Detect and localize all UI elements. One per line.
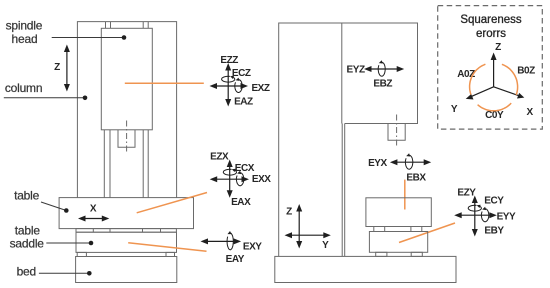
EZX vertical arrow [229,165,231,192]
EYX horizontal arrow [395,161,425,163]
spindle centerline side view [396,115,398,149]
table slide strip [76,229,176,233]
legend orange arc B0Z (between Z and X) [502,64,518,95]
table saddle [76,232,177,252]
svg-text:X: X [90,204,97,215]
svg-text:EXZ: EXZ [251,83,269,94]
EZY horizontal arrow [460,214,492,216]
svg-text:Z: Z [54,62,60,73]
guide rails left [104,130,110,198]
X axis arrow in table [84,218,105,220]
svg-text:EZY: EZY [457,187,476,198]
svg-text:EBY: EBY [484,226,504,237]
column outline [77,22,176,198]
EZZ horizontal arrow [215,85,243,87]
Z-Y coordinate cross side view [298,210,300,244]
saddle side view [369,232,427,253]
EAY rotation ellipse (about horizontal axis) [227,233,233,250]
EAZ rotation ellipse (about horizontal axis) [235,80,242,93]
svg-text:Y: Y [451,104,458,115]
Z axis arrow front view [66,50,68,87]
EYZ horizontal arrow [370,68,399,70]
side view outline: top + left edge [279,23,418,256]
svg-text:EBX: EBX [406,172,426,183]
bed [76,257,177,283]
slide block ticks [93,229,160,233]
EBY rotation ellipse (about horizontal axis) [481,209,488,222]
svg-text:ECY: ECY [484,196,504,207]
guide rails right [143,130,148,198]
legend orange arc A0Z (between Z and Y) [470,64,486,94]
spindle quill [118,130,135,148]
slide strip side view [374,227,385,232]
slide block right side view [411,227,422,232]
svg-text:B0Z: B0Z [517,66,535,77]
svg-text:EZZ: EZZ [220,55,238,66]
svg-text:ECZ: ECZ [232,68,251,79]
svg-text:bed: bed [17,265,36,279]
svg-text:table: table [14,188,40,202]
table [59,198,193,229]
legend Z axis [493,58,495,87]
svg-text:X: X [526,107,533,118]
svg-text:EAX: EAX [231,197,251,208]
EBZ rotation ellipse [378,62,385,76]
legend dashed box [438,6,543,130]
ECX rotation ellipse (about vertical axis) [223,169,236,175]
rail ticks top right [143,22,148,29]
svg-text:EYY: EYY [497,211,516,222]
svg-text:EYX: EYX [368,158,387,169]
column front double line [342,124,345,257]
EXY horizontal arrow [206,240,236,242]
orange leader side saddle to EYY cluster [399,223,455,243]
EZZ vertical arrow [227,69,229,102]
saddle foot right side view [411,252,422,256]
svg-text:EYZ: EYZ [347,65,365,76]
leader table saddle [46,242,91,244]
EBX rotation ellipse [405,155,412,169]
EAX rotation ellipse (about horizontal axis) [236,173,243,186]
saddle foot right [166,252,175,256]
svg-text:saddle: saddle [10,237,45,251]
spindle side view [388,124,405,141]
ECZ rotation ellipse (about vertical axis) [222,76,235,82]
spindle centerline [126,121,128,153]
orange leader spindle head to EXZ cluster [125,82,204,84]
svg-text:table: table [15,223,41,237]
orange leader EBX to side table [404,180,406,210]
head left edge side view [341,23,343,124]
legend Y axis [470,87,493,97]
svg-text:erorrs: erorrs [476,28,506,40]
svg-text:column: column [5,81,42,95]
svg-text:EBZ: EBZ [373,79,392,90]
EZX horizontal arrow [215,178,243,180]
orange leader saddle to EAY [128,243,206,252]
svg-text:ECX: ECX [235,163,255,174]
legend orange arc C0Y (between Y and X) [478,103,512,111]
leader bed [39,272,89,274]
svg-text:EXY: EXY [243,241,262,252]
leader column [4,97,85,99]
svg-text:EAZ: EAZ [234,97,253,108]
spindle head box [101,28,152,130]
bed side view [275,256,456,282]
svg-text:Squareness: Squareness [460,14,522,26]
ECY rotation ellipse (about vertical axis) [468,205,481,211]
saddle foot left side view [376,252,387,256]
svg-text:Y: Y [322,240,329,251]
svg-text:Z: Z [286,207,292,218]
saddle foot left [77,252,86,256]
orange leader table to EZX cluster [137,193,207,213]
svg-text:EAY: EAY [226,254,245,265]
leader spindle head [52,37,124,39]
svg-text:head: head [12,32,38,46]
table side view [366,198,431,227]
svg-text:spindle: spindle [6,19,43,33]
svg-text:Z: Z [495,42,501,53]
svg-text:EZX: EZX [210,152,229,163]
legend X axis [494,87,520,96]
rail ticks top left [106,22,111,29]
leader table [41,202,66,211]
svg-text:EXX: EXX [252,174,271,185]
EZY vertical arrow [474,201,476,231]
